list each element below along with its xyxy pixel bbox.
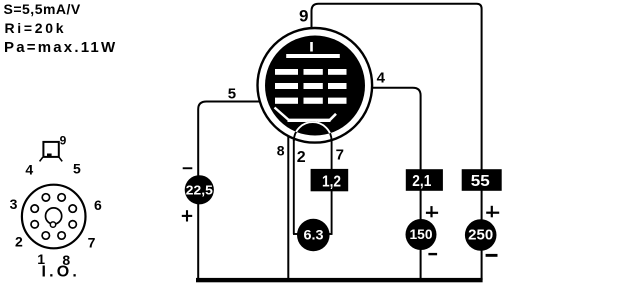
svg-text:9: 9: [60, 134, 67, 148]
svg-text:3: 3: [10, 196, 18, 212]
wire pin8 to ground bus: [287, 128, 289, 280]
svg-text:5: 5: [73, 161, 81, 177]
svg-text:5: 5: [228, 85, 236, 102]
socket label 1: [37, 251, 45, 267]
svg-text:7: 7: [88, 235, 96, 251]
spec text Ri=20k: [5, 20, 67, 36]
top cap pin 9 symbol: [40, 142, 63, 162]
pin label 4: [377, 69, 386, 86]
wire pin7 to heater supply: [328, 140, 333, 234]
svg-text:2,1: 2,1: [412, 173, 431, 190]
pin label 9: [299, 7, 308, 26]
socket pin hole 2: [31, 221, 38, 228]
wire pin4 to screen branch: [361, 88, 421, 280]
minus mark of M1: [183, 167, 193, 169]
socket pin hole 8: [58, 232, 65, 239]
pin label 8: [277, 143, 285, 159]
socket outline: [22, 185, 86, 249]
svg-text:4: 4: [25, 162, 33, 178]
wire pin9 to HT rail: [312, 4, 482, 280]
svg-text:7: 7: [336, 147, 344, 164]
svg-text:250: 250: [468, 228, 493, 244]
minus mark of 150 supply: [428, 253, 437, 255]
supply 150 V: [406, 219, 437, 250]
top cap label 9: [60, 134, 67, 148]
svg-text:6.3: 6.3: [304, 227, 324, 243]
pin label 2: [297, 149, 306, 166]
wire pin2 to heater supply: [293, 140, 299, 234]
heater supply 6.3 V: [297, 219, 330, 252]
minus mark of 250 supply: [486, 254, 498, 257]
svg-text:2: 2: [297, 149, 306, 166]
svg-text:S=5,5mA/V: S=5,5mA/V: [4, 1, 81, 17]
box 2,1 value: [406, 169, 443, 191]
svg-text:150: 150: [410, 226, 433, 242]
anode a: [286, 54, 340, 58]
socket center spigot: [46, 208, 62, 227]
svg-text:4: 4: [377, 69, 386, 86]
socket pin hole 3: [31, 205, 38, 212]
cathode k: [275, 108, 337, 121]
wire pin5 to meter branch: [198, 102, 267, 281]
svg-text:1,2: 1,2: [322, 173, 341, 190]
socket label 8: [62, 252, 70, 268]
plus mark of 250 supply: [486, 206, 499, 218]
plus mark of M1: [182, 210, 192, 221]
spec text Pa=max.11W: [4, 39, 117, 56]
socket label 2: [15, 234, 23, 250]
socket label 4: [25, 162, 33, 178]
socket pin hole 1: [42, 232, 49, 239]
meter M1 22,5 mA: [185, 175, 214, 204]
svg-text:Ri=20k: Ri=20k: [5, 20, 67, 36]
socket label 3: [10, 196, 18, 212]
grid g3 row: [275, 69, 347, 75]
socket pin hole 5: [58, 194, 65, 201]
socket pin hole 4: [42, 194, 49, 201]
socket label 7: [88, 235, 96, 251]
ground bus wire: [196, 278, 483, 282]
svg-text:8: 8: [277, 143, 285, 159]
svg-text:22,5: 22,5: [186, 182, 213, 197]
heater f arch: [294, 122, 332, 141]
svg-text:6: 6: [94, 197, 102, 213]
box 55 value: [462, 169, 502, 191]
pin label 5: [228, 85, 236, 102]
tube U1 envelope: [258, 28, 373, 143]
svg-text:Pa=max.11W: Pa=max.11W: [4, 39, 117, 56]
socket caption I.O.: [42, 264, 81, 281]
svg-text:9: 9: [299, 7, 308, 26]
svg-text:2: 2: [15, 234, 23, 250]
svg-text:55: 55: [471, 173, 490, 190]
supply 250 V: [465, 219, 497, 251]
grid g2 row: [275, 83, 347, 89]
socket label 5: [73, 161, 81, 177]
box 1,2 value: [311, 169, 349, 191]
pin label 7: [336, 147, 344, 164]
spec text S=5,5mA/V: [4, 1, 81, 17]
svg-text:I.O.: I.O.: [42, 264, 81, 281]
socket pin hole 6: [69, 205, 76, 212]
socket pin hole 7: [69, 221, 76, 228]
plus mark of 150 supply: [426, 206, 438, 217]
socket label 6: [94, 197, 102, 213]
anode lead white dash pin 9: [310, 42, 313, 52]
grid g1 row: [275, 98, 347, 104]
